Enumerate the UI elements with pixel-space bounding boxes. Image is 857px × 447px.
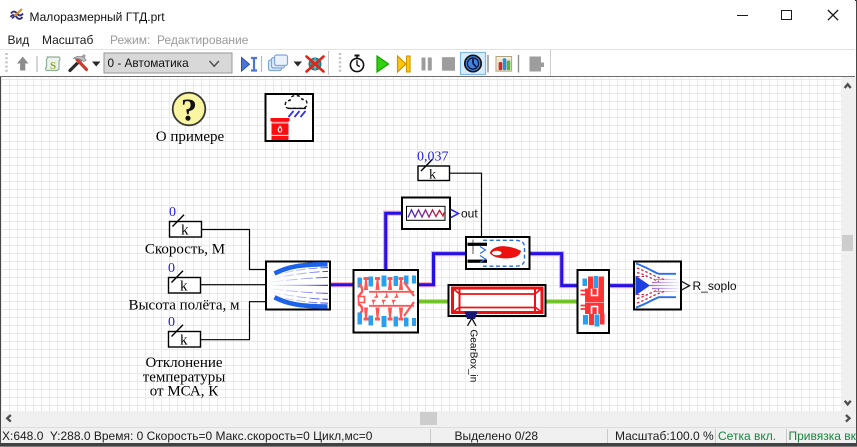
svg-text:k: k bbox=[180, 279, 188, 295]
compressor block bbox=[354, 270, 419, 333]
script icon bbox=[46, 57, 61, 72]
report icon (gray) bbox=[530, 57, 545, 72]
chart icon bbox=[496, 57, 512, 72]
svg-text:k: k bbox=[181, 223, 189, 239]
black bars bbox=[468, 243, 488, 246]
left swirl shape bbox=[358, 284, 362, 297]
scrollbar arrow down bbox=[845, 401, 851, 405]
wire shaft -> turbine (green) bbox=[546, 299, 578, 304]
top blue stator blades bbox=[358, 278, 363, 288]
wire intake -> compressor (gas, violet) bbox=[330, 282, 353, 287]
svg-text:0 - Автоматика: 0 - Автоматика bbox=[108, 56, 190, 70]
gain block 0.037 bbox=[418, 159, 450, 182]
window border right bbox=[856, 0, 857, 447]
svg-text:R_soplo: R_soplo bbox=[693, 279, 737, 293]
combobox "0 - Автоматика" bbox=[104, 53, 232, 73]
svg-text:k: k bbox=[180, 333, 188, 349]
layers icon bbox=[269, 55, 288, 71]
intake block bbox=[266, 262, 330, 310]
nozzle block bbox=[634, 262, 681, 310]
wire compressor -> combustor (violet) bbox=[418, 254, 466, 285]
stop icon (gray) bbox=[442, 57, 455, 70]
svg-text:GearBox_in: GearBox_in bbox=[468, 330, 479, 383]
blue inlet triangle bbox=[636, 276, 651, 296]
toolbar separator bbox=[36, 56, 38, 72]
gain block k3 (Отклонение температуры) bbox=[169, 325, 201, 349]
svg-text:0: 0 bbox=[169, 205, 176, 220]
svg-text:от МСА, К: от МСА, К bbox=[150, 384, 220, 400]
toolbar separator bbox=[518, 55, 520, 73]
wire gain0.037 -> combustor (black) bbox=[450, 173, 482, 236]
window logo icon bbox=[11, 9, 24, 19]
wire compressor top -> scope (violet) bbox=[386, 213, 402, 269]
svg-text:?: ? bbox=[181, 92, 197, 128]
toolbar band separator bbox=[328, 51, 330, 75]
scrollbar arrow right bbox=[846, 415, 850, 422]
lower blue wall bbox=[636, 297, 676, 307]
toolbar gripper bbox=[5, 53, 8, 74]
toolbar up-arrow button bbox=[17, 57, 29, 71]
bottom red rotor blades bbox=[364, 308, 369, 321]
svg-text:О примере: О примере bbox=[156, 129, 225, 145]
shaft / rotor block bbox=[449, 285, 546, 319]
red dashed streamlines lower bbox=[637, 292, 664, 304]
scrollbar arrow left bbox=[7, 415, 11, 422]
window border top bbox=[0, 0, 857, 1]
red mid-lower rail bbox=[369, 305, 414, 307]
combustor block bbox=[466, 237, 530, 269]
gripper 2 bbox=[339, 53, 342, 74]
scope block bbox=[402, 198, 450, 230]
injector line bbox=[472, 240, 474, 255]
wire turbine -> nozzle (violet) bbox=[609, 283, 634, 288]
svg-text:0: 0 bbox=[168, 261, 175, 276]
flame tube dashed bbox=[483, 240, 525, 266]
time control button (highlighted, blue clock) bbox=[461, 53, 486, 75]
toolbar right edge bbox=[550, 50, 552, 76]
run (green play) icon bbox=[377, 56, 389, 72]
wire k2 -> intake bbox=[201, 284, 266, 286]
dropdown arrow for tools bbox=[92, 62, 101, 67]
scrollbar arrow up bbox=[845, 84, 851, 88]
svg-text:Высота полёта, м: Высота полёта, м bbox=[128, 298, 240, 314]
top red rotor blades bbox=[364, 277, 369, 290]
gain block k1 (Скорость) bbox=[170, 215, 202, 239]
svg-text:Скорость, М: Скорость, М bbox=[145, 242, 225, 258]
svg-text:0: 0 bbox=[168, 315, 175, 330]
svg-text:k: k bbox=[429, 168, 436, 183]
status bar bbox=[1, 427, 856, 443]
fuel barrel bbox=[271, 118, 290, 121]
cloud bbox=[285, 96, 307, 109]
svg-text:0,037: 0,037 bbox=[417, 150, 449, 165]
flame bbox=[490, 246, 522, 258]
svg-text:S: S bbox=[50, 60, 56, 72]
menu bar bbox=[0, 30, 855, 50]
gearbox input port symbol bbox=[468, 318, 477, 326]
stopwatch icon bbox=[350, 56, 363, 72]
upper blue wall bbox=[636, 264, 676, 274]
wire k3 -> intake bbox=[201, 302, 266, 340]
bottom blue stator blades bbox=[358, 313, 363, 325]
fuel/atmosphere block bbox=[266, 94, 314, 141]
close button X bbox=[828, 10, 838, 20]
scope output port bbox=[451, 209, 459, 217]
title bar bbox=[0, 0, 855, 30]
step (yellow skip) icon bbox=[398, 56, 411, 72]
toolbar bbox=[0, 50, 855, 77]
red dashed streamlines upper bbox=[637, 268, 664, 280]
vertical scrollbar bbox=[841, 77, 856, 411]
maximize button bbox=[781, 10, 792, 20]
fading exhaust streaks bbox=[650, 280, 679, 292]
rain strokes bbox=[289, 111, 306, 117]
help block (question mark) bbox=[173, 92, 206, 128]
wire combustor -> turbine (violet) bbox=[530, 254, 578, 286]
svg-text:out: out bbox=[461, 207, 478, 221]
window border left bbox=[0, 0, 1, 447]
delete-ports icon (globe with red X) bbox=[307, 57, 324, 72]
nozzle output port bbox=[682, 281, 690, 290]
wire compressor -> shaft (mechanical, green) bbox=[418, 299, 449, 304]
dropdown arrow for layers bbox=[294, 62, 303, 67]
toolbar separator bbox=[261, 56, 263, 72]
pause icon (gray) bbox=[422, 58, 432, 71]
turbine block bbox=[578, 270, 610, 333]
minimize button bbox=[737, 15, 748, 16]
canvas grid bbox=[1, 77, 841, 411]
red mid-upper rail bbox=[369, 291, 414, 293]
step-into blue icon bbox=[242, 58, 258, 72]
toolbar separator bbox=[487, 55, 489, 73]
window title text bbox=[30, 10, 165, 24]
gain block k2 (Высота) bbox=[169, 271, 201, 295]
horizontal scrollbar bbox=[1, 411, 856, 427]
tools icon (hammer + screwdriver) bbox=[70, 56, 87, 71]
gearbox port (navy) bbox=[465, 312, 478, 320]
wire k1 -> intake bbox=[202, 230, 266, 270]
